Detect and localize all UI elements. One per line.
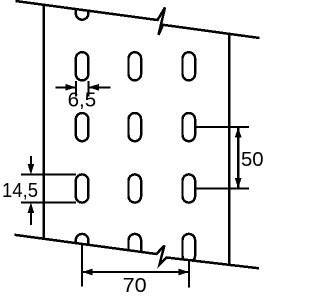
svg-text:70: 70 [123, 274, 147, 297]
svg-text:50: 50 [241, 148, 264, 171]
svg-text:14,5: 14,5 [2, 179, 38, 202]
svg-text:6,5: 6,5 [68, 89, 97, 112]
